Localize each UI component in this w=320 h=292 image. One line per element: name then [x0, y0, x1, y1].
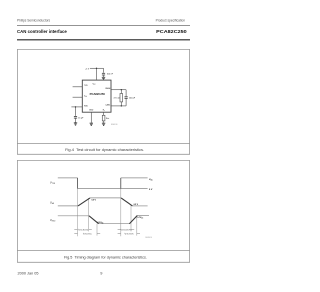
svg-text:0.3VCC: 0.3VCC — [98, 222, 104, 224]
svg-text:15 pF: 15 pF — [78, 117, 84, 119]
svg-text:td(TXD-RXDH): td(TXD-RXDH) — [124, 232, 134, 235]
svg-text:Vdiff: Vdiff — [50, 201, 54, 206]
svg-text:0.7VCC: 0.7VCC — [137, 217, 143, 219]
svg-text:0.9 V: 0.9 V — [92, 200, 97, 202]
svg-text:CANL: CANL — [105, 103, 110, 106]
svg-text:100 pF: 100 pF — [129, 97, 136, 99]
svg-text:PCA82C250: PCA82C250 — [156, 29, 187, 35]
svg-text:0.5 V: 0.5 V — [134, 204, 139, 206]
svg-text:VTXD: VTXD — [50, 180, 56, 185]
svg-text:VCC: VCC — [92, 84, 95, 86]
svg-text:9: 9 — [100, 270, 102, 275]
svg-text:Vref: Vref — [84, 96, 87, 98]
svg-text:100 nF: 100 nF — [107, 73, 114, 75]
svg-text:47.5 Ω: 47.5 Ω — [114, 97, 120, 99]
svg-text:CANH: CANH — [105, 87, 111, 90]
svg-text:Philips Semiconductors: Philips Semiconductors — [17, 19, 51, 23]
svg-text:+5 V: +5 V — [85, 68, 90, 70]
svg-text:Rs: Rs — [103, 109, 105, 111]
svg-text:Product specification: Product specification — [156, 19, 186, 23]
svg-text:0 V: 0 V — [149, 189, 153, 191]
svg-text:MGK616: MGK616 — [145, 237, 152, 239]
svg-text:Fig.4 Test circuit for dynami: Fig.4 Test circuit for dynamic character… — [65, 148, 144, 152]
svg-text:td(TXD-BUSON): td(TXD-BUSON) — [78, 228, 89, 231]
svg-text:td(TXD-BUSOFF): td(TXD-BUSOFF) — [121, 228, 132, 231]
svg-text:2000 Jan 05: 2000 Jan 05 — [18, 270, 39, 275]
svg-text:td(TXD-RXDL): td(TXD-RXDL) — [83, 232, 92, 235]
svg-text:MGK616: MGK616 — [111, 124, 118, 126]
svg-text:GND: GND — [89, 109, 94, 111]
svg-text:VRXD: VRXD — [50, 218, 56, 223]
svg-text:CAN controller interface: CAN controller interface — [17, 29, 67, 35]
svg-text:TXD: TXD — [84, 85, 88, 87]
svg-text:VCC: VCC — [149, 179, 154, 181]
svg-text:Fig.5 Timing diagram for dyna: Fig.5 Timing diagram for dynamic charact… — [64, 255, 147, 259]
svg-text:Rext: Rext — [106, 117, 110, 120]
svg-text:PCA82C250: PCA82C250 — [90, 93, 106, 96]
svg-text:RXD: RXD — [84, 105, 89, 107]
